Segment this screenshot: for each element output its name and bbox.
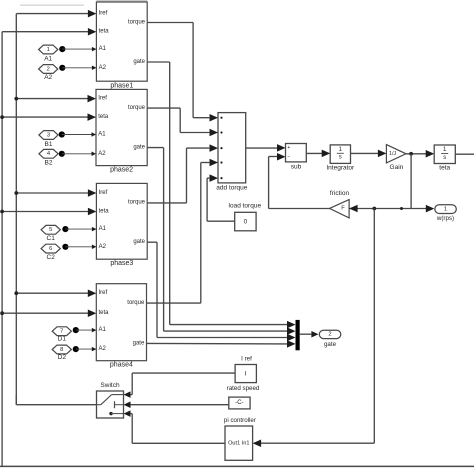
svg-text:A1: A1 bbox=[99, 327, 107, 333]
svg-text:torque: torque bbox=[128, 105, 146, 111]
svg-text:8: 8 bbox=[60, 347, 63, 353]
svg-text:s: s bbox=[443, 155, 446, 161]
svg-text:load torque: load torque bbox=[229, 203, 262, 210]
svg-text:1/J: 1/J bbox=[389, 151, 396, 157]
svg-text:B2: B2 bbox=[45, 160, 53, 167]
svg-text:I: I bbox=[245, 370, 247, 377]
svg-text:pi controller: pi controller bbox=[224, 417, 256, 424]
svg-text:A2: A2 bbox=[99, 346, 107, 352]
svg-text:A2: A2 bbox=[99, 65, 107, 71]
svg-text:1: 1 bbox=[444, 206, 447, 212]
svg-text:gate: gate bbox=[133, 239, 145, 245]
svg-text:A2: A2 bbox=[99, 244, 107, 250]
svg-text:C2: C2 bbox=[47, 254, 56, 261]
svg-text:Iref: Iref bbox=[99, 290, 108, 296]
svg-text:D2: D2 bbox=[58, 354, 67, 361]
svg-text:rated speed: rated speed bbox=[227, 385, 260, 392]
svg-text:Iref: Iref bbox=[99, 190, 108, 196]
svg-text:teta: teta bbox=[99, 29, 110, 35]
svg-text:gate: gate bbox=[324, 341, 337, 348]
svg-text:I ref: I ref bbox=[241, 356, 252, 363]
svg-text:0: 0 bbox=[244, 218, 248, 225]
svg-text:phase3: phase3 bbox=[110, 260, 133, 267]
svg-text:F: F bbox=[341, 206, 345, 212]
svg-text:sub: sub bbox=[291, 163, 302, 170]
svg-text:3: 3 bbox=[47, 132, 50, 138]
svg-text:A1: A1 bbox=[98, 132, 106, 138]
svg-text:gate: gate bbox=[133, 340, 145, 346]
svg-text:phase4: phase4 bbox=[110, 362, 133, 369]
svg-text:A2: A2 bbox=[44, 74, 52, 81]
svg-text:6: 6 bbox=[49, 246, 52, 252]
svg-text:Iref: Iref bbox=[98, 96, 107, 102]
svg-text:Integrator: Integrator bbox=[326, 164, 355, 171]
svg-text:A2: A2 bbox=[98, 151, 106, 157]
svg-text:−: − bbox=[287, 154, 290, 160]
svg-text:torque: torque bbox=[128, 200, 146, 206]
svg-text:phase2: phase2 bbox=[110, 166, 133, 173]
svg-text:-C-: -C- bbox=[235, 400, 243, 406]
svg-text:phase1: phase1 bbox=[110, 83, 133, 90]
svg-text:D1: D1 bbox=[58, 336, 67, 343]
svg-text:2: 2 bbox=[47, 66, 50, 72]
svg-text:teta: teta bbox=[98, 114, 109, 120]
svg-text:A1: A1 bbox=[99, 46, 107, 52]
svg-text:2: 2 bbox=[328, 332, 331, 338]
svg-text:1: 1 bbox=[47, 47, 50, 53]
svg-text:7: 7 bbox=[60, 329, 63, 335]
svg-text:B1: B1 bbox=[45, 141, 53, 148]
svg-text:gate: gate bbox=[133, 145, 145, 151]
svg-text:s: s bbox=[339, 155, 342, 161]
svg-text:add torque: add torque bbox=[216, 185, 247, 192]
svg-text:+: + bbox=[287, 145, 290, 151]
svg-text:A1: A1 bbox=[99, 226, 107, 232]
svg-text:w(rps): w(rps) bbox=[436, 215, 454, 222]
svg-text:Gain: Gain bbox=[390, 164, 404, 171]
svg-text:A1: A1 bbox=[44, 55, 52, 62]
svg-text:torque: torque bbox=[127, 300, 145, 306]
svg-text:teta: teta bbox=[99, 209, 110, 215]
svg-text:5: 5 bbox=[49, 227, 52, 233]
svg-text:C1: C1 bbox=[47, 235, 56, 242]
svg-text:Switch: Switch bbox=[100, 382, 120, 389]
svg-text:Out1 In1: Out1 In1 bbox=[228, 441, 249, 447]
svg-text:torque: torque bbox=[128, 20, 146, 26]
svg-text:teta: teta bbox=[99, 310, 110, 316]
svg-text:friction: friction bbox=[330, 190, 350, 197]
svg-text:gate: gate bbox=[133, 59, 145, 65]
svg-text:teta: teta bbox=[439, 165, 450, 172]
svg-text:Iref: Iref bbox=[99, 11, 108, 17]
